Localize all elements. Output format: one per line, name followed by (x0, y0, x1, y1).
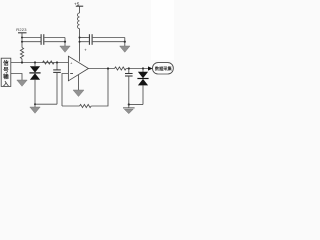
output box (data acquisition) (153, 63, 174, 74)
capacitor C2 (plates) (89, 34, 92, 45)
op-amp U1 (68, 56, 88, 81)
arrow (to output block) (148, 66, 153, 70)
wire (right leads of C1) (44, 38, 65, 42)
resistor R2 (input series) (43, 61, 55, 64)
wire (bottom link D1-C3) (35, 103, 57, 105)
svg-text:输: 输 (3, 73, 9, 81)
junction (128, 67, 130, 69)
wire (126, 68, 148, 70)
resistor R4 (output series) (115, 67, 127, 70)
resistor R3 (feedback) (80, 104, 92, 107)
terminal bar node A (18, 32, 27, 34)
wire (left leads of C1) (22, 38, 41, 42)
svg-text:信: 信 (3, 59, 9, 67)
junction (128, 103, 130, 105)
wire (op-amp output) (88, 68, 114, 70)
wire (input rail) (11, 62, 68, 64)
wire (bottom link C4-D2) (129, 104, 143, 106)
ground (under C2 right lead) (120, 42, 130, 53)
junction node B (21, 61, 23, 63)
terminal bar +5V (76, 5, 83, 7)
label +5 (74, 1, 80, 6)
junction (34, 61, 36, 63)
junction (21, 37, 23, 43)
ground (op-amp V-) (73, 75, 84, 97)
wire (21, 33, 23, 48)
resistor R1 (vertical on node A column) (20, 48, 23, 59)
inductor L1 (78, 13, 80, 29)
svg-text:数据采集: 数据采集 (155, 65, 173, 72)
wire (feedback bottom left) (62, 105, 80, 107)
junction (79, 37, 81, 43)
svg-text:号: 号 (3, 66, 9, 74)
wire (21, 59, 23, 63)
junction (56, 61, 58, 63)
label R223 (16, 27, 27, 32)
wire (box lower pin) (11, 74, 22, 81)
ground (analog ground left) (30, 104, 40, 113)
label + (supply polarity) (84, 48, 87, 53)
junction (34, 103, 36, 105)
wire (79, 6, 81, 13)
wire (left leads of C2) (80, 38, 89, 42)
wire (inverting input) (62, 74, 68, 107)
capacitor C3 (input shunt) (53, 63, 61, 105)
wire (power rail down to op-amp) (79, 29, 81, 62)
junction (64, 41, 66, 43)
ground (earth, output side) (123, 105, 135, 114)
svg-text:R223: R223 (16, 27, 27, 32)
svg-text:入: 入 (2, 80, 9, 87)
ground (input return) (17, 80, 27, 86)
wire (right leads of C2) (93, 38, 125, 42)
capacitor C1 (plates) (41, 34, 44, 45)
wire (feedback bottom right + up) (91, 69, 108, 107)
input box (signal source) (1, 58, 11, 87)
junction (142, 67, 144, 69)
junction (124, 41, 126, 43)
diode D2 (bidirectional TVS, output) (137, 69, 148, 105)
junction (107, 67, 109, 69)
capacitor C4 (output shunt) (125, 69, 133, 105)
diode D1 (bidirectional TVS) (29, 63, 40, 105)
ground (under C1 right lead) (60, 42, 70, 53)
